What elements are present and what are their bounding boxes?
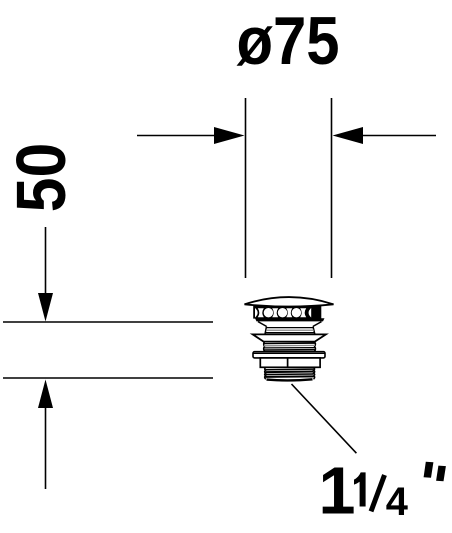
valve bead ring band xyxy=(253,306,321,319)
valve cap underside bar xyxy=(255,318,325,321)
valve flange cone xyxy=(253,334,326,341)
valve gasket stack xyxy=(264,342,316,352)
valve neck cylinder rings xyxy=(265,326,315,334)
valve thread xyxy=(265,368,315,381)
thread size label fraction slash xyxy=(371,475,385,511)
valve dome cap xyxy=(245,297,334,307)
valve neck skirt xyxy=(258,322,322,327)
valve hex nut body xyxy=(260,358,320,367)
thread size label inch mark xyxy=(424,462,446,482)
svg-text:ø75: ø75 xyxy=(236,2,339,78)
svg-text:50: 50 xyxy=(3,143,81,213)
dimension line left segment with arrow xyxy=(137,127,245,144)
valve mounting plate xyxy=(253,352,325,358)
dimension line right segment with arrow xyxy=(333,127,437,144)
reference surface line lower xyxy=(3,377,213,379)
svg-text:4: 4 xyxy=(386,480,408,524)
extension line left (ø75) xyxy=(245,98,247,278)
dimension line down arrow (50) xyxy=(38,227,53,322)
extension line right (ø75) xyxy=(331,98,333,278)
leader line to thread size xyxy=(292,384,357,453)
thread size label fraction numerator 1 xyxy=(354,472,366,506)
dimension line up arrow (50) xyxy=(38,380,53,490)
svg-text:1: 1 xyxy=(319,454,356,528)
reference surface line upper xyxy=(3,321,213,323)
